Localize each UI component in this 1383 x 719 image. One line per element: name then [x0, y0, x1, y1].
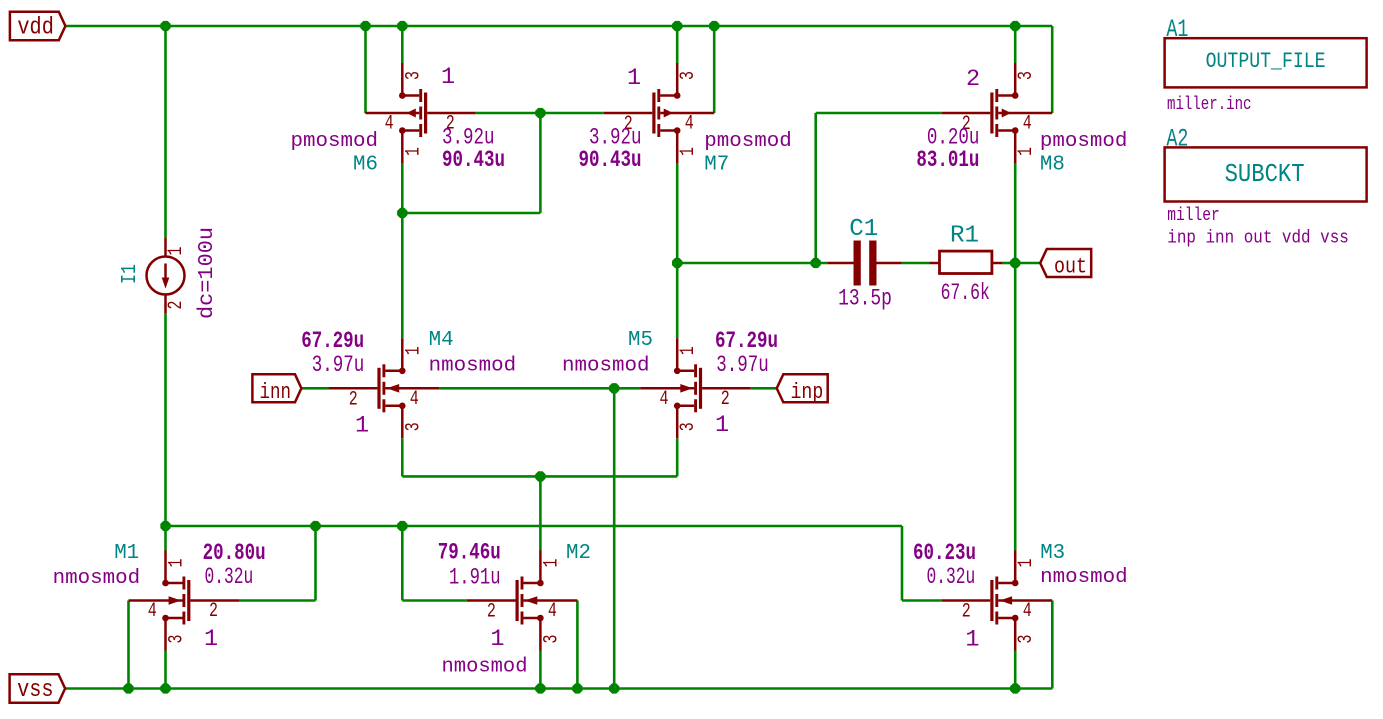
svg-text:pmosmod: pmosmod [291, 130, 379, 153]
svg-text:nmosmod: nmosmod [1040, 566, 1128, 589]
svg-text:M8: M8 [1040, 154, 1065, 177]
svg-text:1: 1 [204, 626, 218, 653]
svg-text:3: 3 [402, 422, 425, 431]
svg-text:60.23u: 60.23u [913, 540, 976, 567]
svg-text:67.29u: 67.29u [301, 328, 364, 355]
svg-text:1: 1 [1015, 147, 1038, 156]
svg-text:pmosmod: pmosmod [704, 130, 792, 153]
svg-text:M3: M3 [1040, 542, 1065, 565]
svg-text:2: 2 [962, 601, 971, 624]
svg-text:4: 4 [685, 113, 694, 136]
svg-text:M2: M2 [566, 542, 591, 565]
svg-text:3: 3 [1015, 635, 1038, 644]
svg-text:1.91u: 1.91u [449, 564, 501, 591]
svg-text:4: 4 [385, 113, 394, 136]
svg-text:1: 1 [540, 559, 563, 568]
svg-text:1: 1 [965, 626, 979, 653]
svg-text:pmosmod: pmosmod [1040, 130, 1128, 153]
svg-text:nmosmod: nmosmod [53, 567, 141, 590]
svg-text:OUTPUT_FILE: OUTPUT_FILE [1206, 48, 1326, 74]
svg-text:3: 3 [166, 635, 189, 644]
svg-text:inp inn out vdd vss: inp inn out vdd vss [1167, 229, 1349, 249]
svg-text:2: 2 [349, 388, 358, 411]
svg-text:miller: miller [1167, 206, 1220, 226]
svg-text:miller.inc: miller.inc [1167, 95, 1252, 115]
svg-text:79.46u: 79.46u [438, 540, 501, 567]
svg-text:A1: A1 [1166, 15, 1188, 44]
svg-text:67.29u: 67.29u [715, 328, 778, 355]
svg-text:SUBCKT: SUBCKT [1225, 159, 1305, 189]
svg-text:vss: vss [17, 677, 54, 704]
svg-text:nmosmod: nmosmod [562, 355, 650, 378]
svg-text:83.01u: 83.01u [916, 147, 979, 174]
svg-text:nmosmod: nmosmod [442, 656, 528, 679]
svg-text:M1: M1 [114, 542, 139, 565]
svg-text:dc=100u: dc=100u [195, 227, 219, 319]
svg-text:20.80u: 20.80u [203, 540, 266, 567]
svg-text:4: 4 [1023, 113, 1032, 136]
svg-text:out: out [1054, 254, 1087, 280]
svg-text:A2: A2 [1166, 125, 1188, 154]
svg-text:inp: inp [791, 379, 824, 405]
svg-text:vdd: vdd [17, 15, 54, 42]
svg-text:67.6k: 67.6k [941, 280, 990, 307]
svg-text:1: 1 [166, 559, 189, 568]
svg-text:2: 2 [209, 600, 218, 623]
svg-text:1: 1 [1015, 559, 1038, 568]
svg-text:M4: M4 [429, 329, 454, 352]
svg-text:0.32u: 0.32u [927, 564, 976, 591]
svg-text:4: 4 [1023, 600, 1032, 623]
svg-text:3: 3 [540, 635, 563, 644]
svg-text:90.43u: 90.43u [579, 147, 642, 174]
svg-text:1: 1 [355, 413, 369, 440]
svg-text:2: 2 [487, 601, 496, 624]
svg-text:4: 4 [660, 388, 669, 411]
svg-text:2: 2 [966, 66, 980, 93]
svg-text:inn: inn [260, 379, 292, 405]
svg-text:C1: C1 [849, 216, 878, 243]
svg-text:M5: M5 [628, 329, 653, 352]
svg-text:1: 1 [677, 346, 700, 355]
svg-text:I1: I1 [119, 264, 142, 284]
svg-text:2: 2 [165, 301, 188, 310]
svg-text:3: 3 [402, 71, 425, 80]
svg-text:1: 1 [402, 346, 425, 355]
svg-text:1: 1 [490, 626, 504, 653]
svg-text:1: 1 [165, 247, 188, 256]
svg-text:3: 3 [677, 422, 700, 431]
svg-text:nmosmod: nmosmod [429, 355, 516, 378]
svg-text:1: 1 [402, 147, 425, 156]
svg-text:M6: M6 [353, 154, 378, 177]
svg-text:3.97u: 3.97u [312, 352, 365, 379]
svg-text:1: 1 [441, 64, 455, 91]
svg-text:90.43u: 90.43u [442, 147, 505, 174]
svg-text:2: 2 [721, 388, 730, 411]
svg-text:1: 1 [715, 412, 729, 439]
svg-text:3: 3 [677, 71, 700, 80]
svg-text:M7: M7 [704, 154, 729, 177]
svg-text:3: 3 [1015, 71, 1038, 80]
svg-text:4: 4 [548, 600, 557, 623]
svg-text:R1: R1 [950, 223, 979, 250]
svg-text:4: 4 [148, 600, 157, 623]
svg-text:4: 4 [410, 388, 419, 411]
svg-text:1: 1 [627, 65, 641, 92]
svg-text:3.97u: 3.97u [716, 352, 769, 379]
svg-text:13.5p: 13.5p [838, 286, 892, 313]
svg-text:1: 1 [677, 147, 700, 156]
svg-text:0.32u: 0.32u [205, 564, 254, 591]
